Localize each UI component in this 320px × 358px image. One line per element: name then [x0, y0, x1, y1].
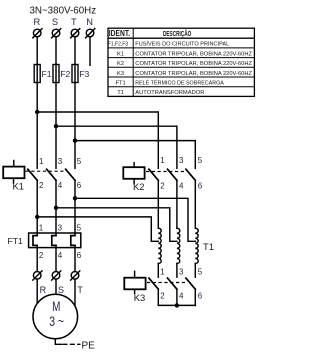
wire R tap to T1 coil1 tap: [37, 217, 158, 241]
svg-text:1: 1: [39, 157, 44, 166]
svg-text:3N~380V-60Hz: 3N~380V-60Hz: [29, 5, 96, 16]
motor terminal T: [71, 271, 80, 280]
autotransformer T1 coil 3: [195, 228, 198, 263]
svg-text:CONTATOR TRIPOLAR, BOBINA 220V: CONTATOR TRIPOLAR, BOBINA 220V-60HZ: [135, 51, 252, 57]
svg-text:6: 6: [77, 181, 82, 190]
svg-text:IDENT.: IDENT.: [109, 29, 130, 38]
contactor K2 coil: [123, 163, 144, 193]
svg-text:FT1: FT1: [8, 236, 23, 246]
terminal S: [52, 29, 61, 38]
wire R fuse to K1 pin1: [36, 83, 38, 169]
wire R supply to fuse: [36, 37, 38, 65]
K3 contact pole 5-6: [186, 278, 195, 289]
wire K3 pin2 to star bus: [157, 289, 159, 305]
K2 contact pole 3-4: [168, 169, 177, 180]
wire PE: [55, 339, 61, 345]
wire FT1 pin6 to motor terminal: [74, 245, 76, 305]
wire K1 pin2 down to FT1: [36, 180, 38, 235]
svg-text:T: T: [77, 285, 83, 295]
legend table: [108, 28, 254, 96]
svg-text:K3: K3: [117, 71, 124, 77]
svg-text:K2: K2: [117, 61, 124, 67]
wire S fuse to K1 pin3: [55, 83, 57, 169]
wire FT1 pin2 to motor terminal: [36, 245, 38, 304]
svg-text:AUTOTRANSFORMADOR: AUTOTRANSFORMADOR: [135, 90, 204, 96]
wire star bus: [158, 304, 195, 306]
svg-text:N: N: [86, 17, 93, 27]
wire T fuse to K1 pin5: [74, 83, 76, 169]
autotransformer T1 coil 2: [177, 228, 180, 263]
svg-text:2: 2: [39, 251, 44, 260]
node R tap: [35, 215, 39, 219]
node T tap: [73, 196, 77, 200]
svg-text:PE: PE: [82, 341, 96, 352]
wire FT1 pin4 to motor terminal: [55, 245, 57, 294]
node R branch: [35, 110, 39, 114]
wire K1 pin6 down to FT1: [74, 180, 76, 235]
svg-text:3: 3: [179, 268, 184, 277]
svg-text:1: 1: [39, 223, 44, 232]
svg-text:6: 6: [198, 291, 203, 300]
node T branch: [73, 138, 77, 142]
svg-text:R: R: [34, 17, 41, 27]
svg-text:K3: K3: [134, 292, 145, 303]
wire K1 pin4 down to FT1: [55, 180, 57, 235]
autotransformer T1 coil 1: [158, 228, 161, 263]
svg-text:F2: F2: [60, 69, 70, 79]
svg-text:4: 4: [58, 181, 63, 190]
svg-text:1: 1: [160, 268, 165, 277]
wire T supply to fuse: [74, 37, 76, 65]
wire T bus to K2 pin5: [75, 141, 195, 169]
fuse F1: [34, 65, 52, 83]
svg-text:3: 3: [179, 156, 184, 165]
K1 contact pole 3-4: [47, 169, 56, 180]
svg-text:T1: T1: [117, 90, 124, 96]
svg-text:T: T: [71, 17, 77, 27]
wire K2 pin2 to T1 coil1: [157, 180, 159, 228]
wire T tap to T1 coil3 tap: [75, 198, 195, 241]
svg-text:4: 4: [179, 182, 184, 191]
motor M 3~: [33, 294, 78, 339]
svg-text:R: R: [40, 285, 47, 295]
svg-text:F3: F3: [79, 69, 89, 79]
K2 contact pole 1-2: [149, 169, 158, 180]
wire S supply to fuse: [55, 37, 57, 65]
terminal R: [33, 29, 42, 38]
svg-text:5: 5: [77, 223, 82, 232]
svg-text:FUSÍVEIS DO CIRCUITO PRINCIPAL: FUSÍVEIS DO CIRCUITO PRINCIPAL: [135, 41, 230, 48]
svg-text:FT1: FT1: [115, 81, 125, 87]
K1 contact pole 1-2: [28, 169, 37, 180]
motor terminal S: [52, 271, 61, 280]
wire N: [89, 37, 91, 66]
contactor K3 coil: [124, 271, 145, 303]
fuse F3: [72, 65, 90, 83]
svg-text:4: 4: [58, 251, 63, 260]
K2 contact pole 5-6: [186, 169, 195, 180]
svg-text:DESCRIÇÃO: DESCRIÇÃO: [163, 29, 191, 38]
svg-text:RELÉ TÉRMICO DE SOBRECARGA: RELÉ TÉRMICO DE SOBRECARGA: [135, 80, 224, 87]
fuse F2: [53, 65, 71, 83]
wire K2 pin4 to T1 coil2: [176, 180, 178, 228]
svg-text:5: 5: [198, 268, 203, 277]
contactor K1 coil: [3, 161, 24, 192]
svg-text:K2: K2: [133, 181, 144, 192]
svg-text:2: 2: [160, 291, 165, 300]
wire K2 pin6 to T1 coil3: [194, 180, 196, 228]
wire K3 pin6 to star bus: [194, 289, 196, 305]
K3 contact pole 1-2: [149, 278, 158, 289]
K1 contact pole 5-6: [66, 169, 75, 180]
K1 linkage (dashed): [26, 170, 67, 172]
svg-text:CONTATOR TRIPOLAR, BOBINA 220V: CONTATOR TRIPOLAR, BOBINA 220V-60HZ: [135, 71, 252, 77]
wire R bus to K2 pin1: [37, 112, 158, 168]
motor terminal R: [33, 271, 42, 280]
svg-text:CONTATOR TRIPOLAR, BOBINA 220V: CONTATOR TRIPOLAR, BOBINA 220V-60HZ: [135, 61, 252, 67]
wire S tap to T1 coil2 tap: [56, 208, 177, 242]
svg-text:M: M: [52, 298, 60, 314]
svg-text:F1,F2,F3: F1,F2,F3: [108, 42, 128, 48]
svg-text:5: 5: [198, 156, 203, 165]
svg-text:6: 6: [77, 251, 82, 260]
wire T1 coil1 to K3 pin1: [157, 264, 159, 278]
svg-text:4: 4: [179, 291, 184, 300]
svg-text:6: 6: [198, 182, 203, 191]
terminal T: [71, 29, 80, 38]
svg-text:K1: K1: [117, 51, 124, 57]
svg-text:2: 2: [39, 181, 44, 190]
node S branch: [54, 124, 58, 128]
wire S bus to K2 pin3: [56, 126, 177, 168]
wire K3 pin4 to star bus: [176, 289, 178, 305]
thermal relay FT1: [8, 233, 81, 248]
svg-text:5: 5: [77, 157, 82, 166]
svg-text:S: S: [58, 285, 64, 295]
terminal N: [86, 29, 95, 38]
svg-text:F1: F1: [42, 69, 52, 79]
svg-text:3: 3: [58, 157, 63, 166]
K3 linkage (dashed): [147, 282, 186, 284]
K3 contact pole 3-4: [168, 278, 177, 289]
svg-text:2: 2: [160, 182, 165, 191]
wire T1 coil2 to K3 pin3: [176, 264, 178, 278]
svg-text:T1: T1: [203, 241, 214, 252]
svg-text:1: 1: [160, 156, 165, 165]
svg-text:S: S: [52, 17, 58, 27]
K2 linkage (dashed): [146, 171, 187, 173]
node S tap: [54, 206, 58, 210]
wire T1 coil3 to K3 pin5: [194, 264, 196, 278]
node star point: [175, 303, 179, 307]
svg-text:K1: K1: [13, 181, 24, 192]
svg-text:3 ~: 3 ~: [49, 314, 64, 330]
svg-text:3: 3: [58, 223, 63, 232]
